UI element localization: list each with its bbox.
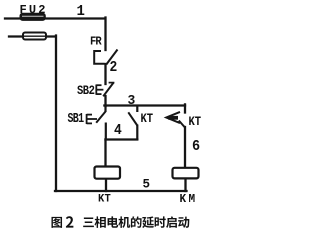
wire fuse2 lead bbox=[9, 35, 55, 37]
node 2 bbox=[110, 59, 118, 76]
wire KM coil to bottom rail bbox=[184, 179, 186, 192]
node 1 bbox=[77, 3, 85, 20]
wire left rail bbox=[55, 36, 57, 192]
node 3 bbox=[128, 92, 136, 108]
pushbutton SB1 (NO start) bbox=[87, 106, 106, 141]
thermal relay contact FR bbox=[94, 50, 117, 65]
label KT (self-hold contact) bbox=[141, 112, 154, 127]
contact KT delayed-close NO bbox=[166, 112, 185, 128]
contact KT (self-hold NO) bbox=[128, 106, 137, 141]
wire node 4 to KT coil bbox=[104, 140, 106, 167]
wire bottom rail bbox=[55, 190, 187, 192]
wire FR to SB2 (node 2) bbox=[104, 64, 106, 84]
node 6 bbox=[192, 139, 200, 156]
fuse FU2a bbox=[20, 13, 45, 20]
coil KM bbox=[173, 168, 199, 179]
label FU2 bbox=[20, 3, 48, 17]
wire node 3 horizontal bbox=[104, 104, 185, 106]
node 4 bbox=[114, 122, 122, 139]
label KT (delayed contact) bbox=[189, 115, 202, 130]
wire SB2 to node 3 bbox=[104, 96, 106, 106]
wire main vertical (node 1 to FR) bbox=[104, 18, 106, 51]
label FR bbox=[90, 35, 101, 49]
pushbutton SB2 (NC stop) bbox=[96, 83, 114, 97]
node 5 bbox=[143, 177, 151, 192]
wire top line 1 bbox=[5, 17, 104, 19]
fuse FU2b bbox=[23, 33, 46, 40]
coil KT bbox=[95, 167, 121, 179]
wire KT coil to bottom rail bbox=[105, 179, 107, 191]
wire KT delayed contact to KM coil bbox=[184, 127, 186, 168]
wire node 4 horizontal bbox=[106, 138, 138, 140]
caption 图2 三相电机的延时启动 bbox=[51, 216, 189, 228]
label SB1 bbox=[68, 112, 84, 128]
wire right branch upper stub bbox=[184, 104, 186, 112]
label KM (coil) bbox=[180, 193, 198, 206]
label SB2 bbox=[77, 84, 94, 99]
label KT (coil) bbox=[98, 193, 111, 206]
